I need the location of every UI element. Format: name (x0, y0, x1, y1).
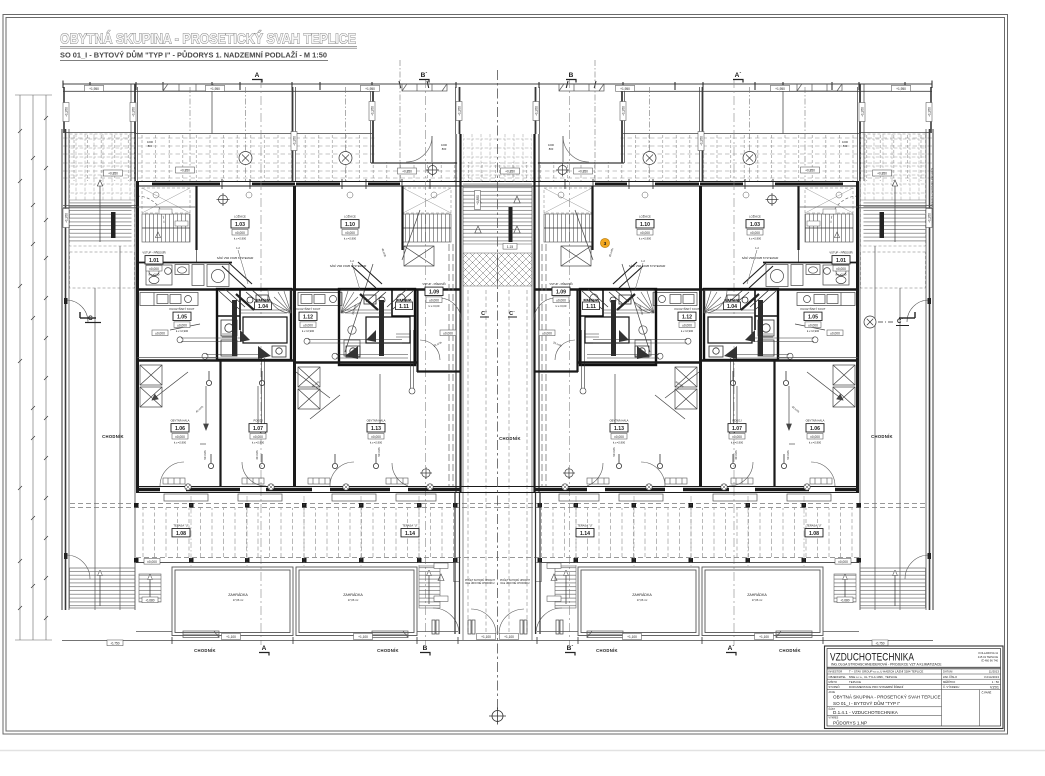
svg-text:±0,000: ±0,000 (345, 231, 355, 235)
terasa label 1.08 (805, 524, 823, 538)
annex dashed landing outline (70, 252, 135, 288)
svg-text:KOUPELNA: KOUPELNA (725, 298, 740, 302)
svg-text:±0,000: ±0,000 (836, 267, 846, 271)
room label 1.11 koupelna (583, 298, 600, 310)
plan bottom edge line (62, 640, 498, 642)
note pocet schodu (500, 579, 531, 585)
unit1 winder stair fan (268, 290, 291, 313)
unit2 duct runs (304, 330, 415, 394)
level box +0.850 (501, 168, 520, 174)
header separator double line (827, 666, 1001, 668)
unit1 airflow arrows (152, 264, 373, 430)
yellow revision balloon 3 (600, 238, 609, 247)
level box +1.950 (771, 85, 790, 91)
corridor lower dashed guides (468, 290, 486, 632)
unit1 wardrobe crossed boxes (140, 365, 162, 407)
svg-text:DATUM: DATUM (943, 670, 953, 674)
zahradka label (747, 593, 767, 602)
svg-text:+1,100: +1,100 (504, 635, 514, 639)
room label 1.01 (142, 250, 165, 277)
svg-text:SÁNÍ VSR 150/B SYSTEMAIR: SÁNÍ VSR 150/B SYSTEMAIR (629, 264, 666, 268)
svg-text:TERASA "U": TERASA "U" (402, 524, 417, 528)
annex bottom stair (70, 568, 136, 608)
svg-text:1.05: 1.05 (808, 315, 818, 321)
level box +1.100 (222, 634, 241, 640)
level box rotated +1.950 (130, 103, 136, 122)
svg-text:1.11: 1.11 (399, 304, 409, 310)
svg-text:ZAHRÁDKA: ZAHRÁDKA (632, 593, 652, 597)
unit2 stair hatch (top-right) (403, 188, 451, 213)
svg-text:KUCHYŇSKÝ KOUT: KUCHYŇSKÝ KOUT (675, 307, 700, 311)
unit2 closet below stair (404, 246, 434, 266)
corridor stair center rail (509, 207, 513, 242)
unit1 dark door wedges (240, 330, 250, 342)
info table left labels (829, 670, 847, 690)
svg-text:-0,680: -0,680 (145, 599, 154, 603)
level box +1.950 (361, 85, 380, 91)
svg-text:C: C (88, 315, 93, 322)
svg-text:+1,950: +1,950 (622, 106, 626, 116)
unit1 bath top wall (138, 262, 233, 264)
dim tick marks left chains (18, 116, 48, 620)
svg-text:±0,000: ±0,000 (556, 298, 566, 302)
svg-text:1.2: 1.2 (350, 259, 354, 263)
svg-text:±0,000: ±0,000 (303, 323, 313, 327)
svg-text:1.03: 1.03 (235, 222, 245, 228)
room label 1.12 (296, 307, 321, 333)
room label 1.06 (171, 419, 190, 445)
section marker B´ (419, 72, 429, 83)
pergola dashed band over facade (63, 134, 498, 181)
svg-text:DLE ÚROVNĚ CHODNÍKU: DLE ÚROVNĚ CHODNÍKU (501, 582, 530, 585)
room label 1.13 (367, 419, 386, 445)
svg-text:800: 800 (442, 147, 447, 151)
annex entry stair hatch (70, 134, 135, 200)
svg-text:800: 800 (549, 147, 554, 151)
svg-text:800: 800 (148, 144, 153, 148)
svg-text:CHODNÍK: CHODNÍK (596, 648, 618, 653)
level box rotated +1.950 (859, 103, 865, 122)
railing rail detail 4 (797, 84, 842, 91)
annex stair arrow (99, 186, 101, 242)
corridor landing label box 1.15 (503, 244, 517, 250)
zahradka bottom entry porch right (372, 631, 408, 638)
room label 1.03 (746, 214, 764, 241)
terasa bottom line (136, 562, 458, 564)
terasa label 1.08 (172, 524, 190, 538)
room label 1.13 (610, 419, 629, 445)
svg-text:CHODNÍK: CHODNÍK (499, 436, 521, 441)
svg-text:KUCHYŇSKÝ KOUT: KUCHYŇSKÝ KOUT (801, 307, 826, 311)
level box rotated +1.950 (63, 103, 69, 122)
svg-text:1.12: 1.12 (682, 315, 692, 321)
svg-text:±0,000: ±0,000 (235, 231, 245, 235)
svg-text:+1,100: +1,100 (358, 635, 368, 639)
unit1 entry stair hatch (142, 188, 190, 213)
svg-text:MSE s.r.o., UL.TYLA 1096 , TE: MSE s.r.o., UL.TYLA 1096 , TEPLICE (849, 675, 897, 679)
unit1 bath fixtures (146, 265, 229, 287)
svg-text:CHODNÍK: CHODNÍK (377, 648, 399, 653)
svg-text:OBYTNÁ HALA: OBYTNÁ HALA (367, 419, 386, 423)
svg-text:C´: C´ (897, 319, 903, 325)
svg-text:±0,000: ±0,000 (149, 267, 159, 271)
bottom small dim ticks (172, 637, 458, 644)
unit2 predsin lower wall (417, 370, 461, 372)
unit1 pipe risers (206, 371, 378, 469)
section marker A (252, 72, 262, 83)
svg-text:1.10: 1.10 (345, 222, 355, 228)
svg-text:k.v.=2,900: k.v.=2,900 (252, 441, 265, 445)
svg-text:1.2: 1.2 (236, 246, 240, 250)
door width labels band (147, 140, 848, 151)
room label 1.01 (829, 250, 852, 277)
svg-text:KOLLAROVA 11: KOLLAROVA 11 (979, 651, 999, 655)
svg-text:INVESTOR: INVESTOR (829, 670, 843, 674)
svg-text:1.2: 1.2 (641, 259, 645, 263)
svg-text:+1,950: +1,950 (371, 106, 375, 116)
far-left dimension chains (15, 95, 52, 640)
duct run along corridor dashed (449, 244, 453, 486)
svg-text:k.v.=2,900: k.v.=2,900 (176, 329, 189, 333)
level box -0,680 (837, 597, 853, 603)
svg-text:±0,000: ±0,000 (147, 560, 157, 564)
unit2 predsin wall vertical (416, 289, 418, 372)
svg-text:+1,100: +1,100 (627, 635, 637, 639)
svg-text:k.v.=2,900: k.v.=2,900 (731, 441, 744, 445)
zahradka label (228, 593, 248, 602)
level box +1.100 (623, 634, 642, 640)
info table right values (984, 670, 1000, 684)
svg-text:50 m³/h: 50 m³/h (612, 447, 616, 457)
svg-text:OBYTNÁ SKUPINA - PROSETICKÝ SV: OBYTNÁ SKUPINA - PROSETICKÝ SVAH TEPLICE (833, 693, 941, 699)
section marker B (566, 72, 576, 83)
svg-text:±0,000: ±0,000 (830, 332, 840, 336)
svg-text:KOUPELNA: KOUPELNA (397, 298, 412, 302)
level box ±0,000 (440, 330, 456, 336)
zahradka right wall block (296, 567, 417, 636)
svg-text:±0,000: ±0,000 (732, 435, 742, 439)
room label 1.07 (728, 419, 746, 445)
section marker C (85, 315, 101, 323)
window ticks on top wall (222, 179, 430, 189)
level box rotated +1.950 (456, 102, 462, 121)
svg-text:A: A (255, 72, 260, 79)
zahradka bottom entry porch left (183, 631, 219, 638)
left annex outer double wall (62, 129, 69, 610)
svg-text:±0,000: ±0,000 (682, 323, 692, 327)
level box rotated +1.950 (533, 102, 539, 121)
facade dim boxes row (y198-207 wall line) (137, 206, 196, 208)
svg-text:±0,000: ±0,000 (838, 560, 848, 564)
garden steps between annex and zahradka (139, 574, 161, 602)
svg-text:3: 3 (604, 241, 607, 247)
svg-text:+1,950: +1,950 (365, 87, 375, 91)
survey cross near corridor right (563, 467, 575, 479)
svg-text:A´: A´ (735, 72, 742, 79)
survey cross symbol on facade (426, 164, 439, 177)
title block outer frame (825, 646, 1004, 729)
svg-text:1000: 1000 (147, 140, 153, 144)
svg-text:SO 01_I - BYTOVÝ DŮM "TYP I" -: SO 01_I - BYTOVÝ DŮM "TYP I" - PŮDORYS 1… (60, 49, 327, 59)
unit2 entry door arc from corridor (439, 298, 461, 320)
room label 1.09 (549, 281, 572, 308)
svg-text:+1,950: +1,950 (458, 106, 462, 116)
svg-text:±0,000: ±0,000 (175, 435, 185, 439)
svg-text:±0,000: ±0,000 (614, 435, 624, 439)
svg-text:+1,950: +1,950 (861, 107, 865, 117)
railing rail detail 2 (402, 84, 447, 91)
info table left values (849, 670, 923, 690)
svg-text:k.v.=2,900: k.v.=2,900 (174, 441, 187, 445)
svg-text:+0,850: +0,850 (402, 170, 412, 174)
svg-text:KUCHYŇSKÝ KOUT: KUCHYŇSKÝ KOUT (296, 307, 321, 311)
unit2 duct diagonals (352, 262, 384, 356)
center section dash-dot line (497, 70, 499, 722)
svg-text:11/2013: 11/2013 (989, 670, 1000, 674)
railing rail detail 3 (559, 84, 604, 91)
section marker A (259, 645, 269, 656)
svg-text:-0,750: -0,750 (875, 642, 884, 646)
unit1 duct diagonals (222, 262, 254, 356)
svg-text:1.2: 1.2 (755, 246, 759, 250)
room label 1.11 koupelna (396, 298, 413, 310)
svg-text:1.04: 1.04 (258, 304, 268, 310)
unit2 wardrobe crossed boxes (298, 367, 320, 409)
annex stair rail bar (111, 212, 116, 238)
corridor landing crosshatch (463, 253, 498, 286)
svg-text:1000: 1000 (548, 143, 554, 147)
svg-text:±0,000: ±0,000 (810, 435, 820, 439)
unit1 kitchen counter (140, 293, 198, 306)
level box -0,750 (872, 640, 888, 646)
scanner page bottom edge (0, 750, 1045, 752)
lower wall outlet symbols (185, 484, 433, 490)
subtitle underline (60, 60, 328, 62)
svg-text:1.13: 1.13 (614, 426, 624, 432)
svg-text:B´: B´ (567, 645, 574, 652)
level box rotated +1.950 (926, 209, 932, 228)
bottom center survey target (489, 708, 506, 725)
level box rotated +1.950 (291, 132, 297, 151)
unit1 duct runs (177, 337, 266, 434)
section C cut mark left (80, 312, 96, 318)
lower door swing arcs (160, 462, 408, 486)
svg-text:±0,000: ±0,000 (640, 231, 650, 235)
room label 1.06 (806, 419, 825, 445)
door swing arc unit1 terrace door (406, 136, 432, 162)
annex door arc bottom (66, 555, 90, 579)
svg-text:50 m³/h: 50 m³/h (203, 450, 207, 460)
svg-text:SO 01_I - BYTOVÝ DŮM "TYP I": SO 01_I - BYTOVÝ DŮM "TYP I" (833, 700, 901, 706)
svg-text:B´: B´ (421, 72, 428, 79)
unit2 airflow arrows (170, 210, 420, 430)
section marker C corridor (508, 311, 517, 317)
svg-text:CHODNÍK: CHODNÍK (194, 648, 216, 653)
unit2 dark door wedges (366, 330, 376, 342)
radiators above bottom wall (163, 478, 408, 484)
title underline (60, 45, 357, 47)
top band dimension ticks on top line (63, 81, 456, 91)
svg-text:±0,000: ±0,000 (429, 298, 439, 302)
svg-text:V-01A/2013: V-01A/2013 (984, 675, 999, 679)
walkway long verticals (chodnik strip) (95, 246, 120, 610)
level box +0.850 (574, 168, 593, 174)
svg-text:KOUPELNA: KOUPELNA (584, 298, 599, 302)
level box +0.850 (398, 168, 417, 174)
svg-text:TERASA "U": TERASA "U" (173, 524, 188, 528)
corridor (between buildings) left wall (456, 134, 463, 640)
svg-text:STUPEŇ: STUPEŇ (829, 685, 840, 689)
room label 1.07 (249, 419, 267, 445)
svg-text:1.05: 1.05 (177, 315, 187, 321)
svg-text:D.1.4.1 - VZDUCHOTECHNIKA: D.1.4.1 - VZDUCHOTECHNIKA (833, 710, 899, 715)
room label 1.10 (636, 214, 654, 241)
zahradka label (343, 593, 363, 602)
svg-text:±0,000: ±0,000 (443, 332, 453, 336)
info table right labels (943, 670, 959, 690)
level box +1.100 (477, 634, 496, 640)
level box rotated +1.950 (698, 132, 704, 151)
svg-text:B: B (569, 72, 574, 79)
svg-text:+0,850: +0,850 (180, 169, 190, 173)
level box +0.850 (176, 167, 195, 173)
svg-text:VÝKRES: VÝKRES (829, 717, 839, 720)
level box rotated +1.950 (369, 102, 375, 121)
terrace interior white-out (375, 88, 498, 162)
svg-text:+1,950: +1,950 (65, 213, 69, 223)
level box +1.950 (206, 85, 225, 91)
level box at corridor garden stair (434, 563, 448, 568)
svg-text:50 m³/h: 50 m³/h (377, 447, 381, 457)
terasa label 1.14 (401, 524, 419, 538)
level box +1.100 (354, 634, 373, 640)
svg-text:B: B (423, 645, 428, 652)
level box ±0,000 (835, 559, 851, 565)
svg-text:OBYTNÁ HALA: OBYTNÁ HALA (171, 419, 190, 423)
terasa slats (136, 508, 458, 558)
unit1 bathtub (243, 317, 287, 343)
pipe run horizontal in unit1 lower (200, 443, 206, 445)
svg-text:POKOJ: POKOJ (732, 419, 742, 423)
svg-text:1.08: 1.08 (176, 531, 186, 537)
svg-text:1.12: 1.12 (303, 315, 313, 321)
svg-text:A´: A´ (728, 645, 735, 652)
svg-text:k.v.=3,00: k.v.=3,00 (149, 273, 160, 277)
room label 1.10 (341, 214, 359, 241)
info table lines (827, 669, 1001, 726)
svg-text:800: 800 (843, 144, 848, 148)
level box ±0,000 (827, 330, 843, 336)
unit1 core extra ducts (219, 289, 287, 357)
svg-text:+1,950: +1,950 (210, 87, 220, 91)
unit2 lower wall (296, 361, 417, 363)
level box +1.950 (85, 85, 104, 91)
svg-text:+1,950: +1,950 (928, 107, 932, 117)
annex level line (63, 206, 136, 208)
svg-text:k.v.=2,900: k.v.=2,900 (639, 237, 652, 241)
unit2 kitchen counter (298, 293, 342, 306)
svg-text:1000: 1000 (842, 140, 848, 144)
svg-text:1.01: 1.01 (836, 258, 846, 264)
svg-text:C´: C´ (481, 311, 487, 317)
svg-text:50 m³/h: 50 m³/h (786, 450, 790, 460)
unit2 bathtub (366, 317, 410, 343)
svg-text:TERASA "U": TERASA "U" (577, 524, 592, 528)
unit1 entry-loznice wall (195, 186, 197, 250)
axis marker X circle 2 (339, 152, 352, 165)
svg-text:PŮDORYS 1.NP: PŮDORYS 1.NP (833, 719, 867, 725)
corridor stair treads (463, 184, 498, 244)
terasa band top dashed double line (70, 504, 498, 558)
corridor walls to bottom (454, 493, 456, 634)
door stoops below bottom wall (164, 494, 436, 501)
dash-dot guide verticals in band (190, 60, 400, 181)
section marker B´ (565, 645, 575, 656)
section marker C (864, 316, 893, 328)
unit1 stair level boxes (159, 209, 188, 226)
svg-text:1.04: 1.04 (727, 304, 737, 310)
building left wall (136, 181, 139, 493)
svg-text:SÁNÍ VSR 150/B SYSTEMAIR: SÁNÍ VSR 150/B SYSTEMAIR (742, 256, 779, 260)
top band inner line (63, 132, 136, 134)
svg-text:k.v.=2,900: k.v.=2,900 (749, 237, 762, 241)
svg-text:415 01 TEPLICE: 415 01 TEPLICE (978, 655, 998, 659)
svg-text:k.v.=2,900: k.v.=2,900 (234, 237, 247, 241)
svg-text:1.10: 1.10 (640, 222, 650, 228)
svg-text:k.v.=2,900: k.v.=2,900 (681, 329, 694, 333)
svg-text:k.v.=3,00: k.v.=3,00 (556, 304, 567, 308)
level box -0,680 (142, 597, 158, 603)
axis marker X circle 1 (239, 152, 252, 165)
svg-text:17,06 m²: 17,06 m² (637, 598, 648, 602)
svg-text:CHODNÍK: CHODNÍK (779, 648, 801, 653)
svg-text:+1,100: +1,100 (759, 635, 769, 639)
svg-text:±0,000: ±0,000 (542, 332, 552, 336)
svg-text:1.09: 1.09 (429, 290, 439, 296)
section line B vertical (425, 79, 427, 645)
circled markers under top wall (153, 192, 437, 198)
svg-text:OBYTNÁ HALA: OBYTNÁ HALA (610, 419, 629, 423)
section line A vertical (260, 79, 262, 645)
svg-text:+1,950: +1,950 (775, 87, 785, 91)
svg-text:+1,100: +1,100 (226, 635, 236, 639)
zahradka label (632, 593, 652, 602)
bottom door arc near corridor (471, 609, 496, 634)
level box +1.100 (500, 634, 519, 640)
svg-text:1.06: 1.06 (175, 426, 185, 432)
corridor hatch top (463, 134, 498, 182)
level box ±0,000 (144, 559, 160, 565)
svg-text:±0,000: ±0,000 (808, 323, 818, 327)
svg-text:+0,850: +0,850 (805, 169, 815, 173)
section marker A´ (733, 72, 743, 83)
unit1 washer dryer (221, 320, 237, 356)
level box -0,750 (107, 640, 123, 646)
annex door arc lower (66, 300, 88, 322)
door swing arc from annex to band (137, 196, 164, 223)
svg-text:OBYTNÁ HALA: OBYTNÁ HALA (806, 419, 825, 423)
svg-text:1.06: 1.06 (810, 426, 820, 432)
terasa label 1.14 (576, 524, 594, 538)
survey cross symbol left facade (217, 193, 230, 206)
svg-text:+0,850: +0,850 (476, 195, 480, 205)
unit1/unit2 party wall (293, 186, 296, 486)
svg-text:k.v.=2,900: k.v.=2,900 (370, 441, 383, 445)
rotated level box on corridor wall (454, 563, 460, 582)
level box rotated +1.950 (620, 102, 626, 121)
svg-text:1 : 50: 1 : 50 (992, 680, 1000, 684)
svg-text:KOUPELNA: KOUPELNA (256, 298, 271, 302)
